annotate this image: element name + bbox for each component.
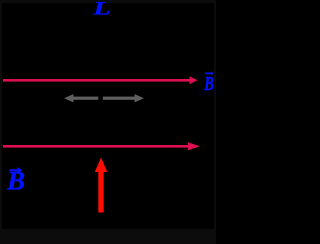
svg-text:B: B (6, 166, 25, 196)
svg-text:B: B (203, 72, 213, 95)
svg-text:L: L (92, 0, 111, 19)
